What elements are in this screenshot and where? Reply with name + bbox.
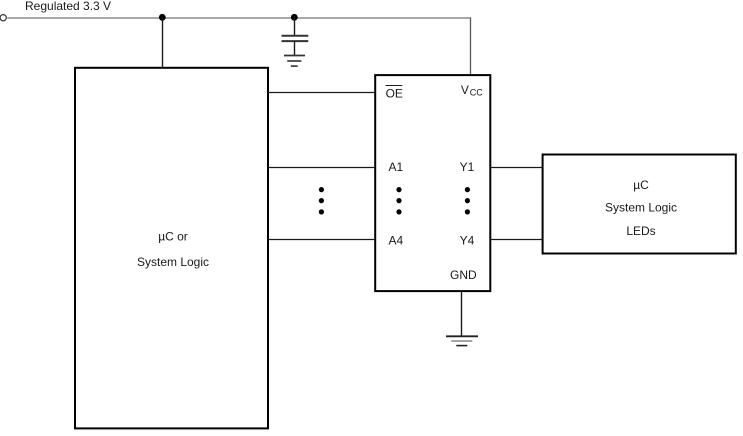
ellipsis dots (A inputs) (396, 187, 401, 214)
wire: rail down to capacitor (294, 18, 296, 36)
svg-text:µC: µC (633, 178, 649, 192)
wire: 3.3 V rail (7, 17, 470, 19)
wire: left block to OE (268, 92, 375, 94)
ellipsis dots (Y outputs) (465, 187, 470, 214)
wire: rail down to left block (162, 18, 164, 68)
svg-text:A4: A4 (389, 233, 404, 247)
svg-text:Y4: Y4 (460, 233, 475, 247)
wire: left block to A4 (268, 239, 375, 241)
IC U1 (quad buffer) (375, 75, 490, 291)
svg-text:LEDs: LEDs (626, 224, 655, 238)
svg-text:µC or: µC or (158, 230, 188, 244)
junction: rail to left block (159, 14, 166, 21)
junction: rail to capacitor (291, 14, 298, 21)
svg-text:A1: A1 (389, 160, 404, 174)
ground (below capacitor) (284, 56, 305, 67)
wire: Y4 to right block (490, 239, 542, 241)
wire: rail down to VCC pin (470, 18, 472, 76)
svg-text:GND: GND (450, 268, 477, 282)
ellipsis dots (wires between blocks) (319, 187, 324, 214)
wire: capacitor to ground (294, 41, 296, 55)
wire: GND pin to ground (461, 291, 463, 336)
svg-text:System Logic: System Logic (605, 201, 677, 215)
capacitor C1 (decoupling) (282, 36, 309, 41)
svg-text:OE: OE (386, 87, 403, 101)
svg-text:CC: CC (470, 87, 483, 97)
block: uC / System Logic / LEDs (543, 155, 736, 254)
svg-text:V: V (461, 83, 469, 97)
terminal: regulated 3.3 V input (0, 15, 6, 21)
svg-text:System Logic: System Logic (137, 255, 209, 269)
block: uC or System Logic (75, 68, 268, 429)
svg-text:Regulated 3.3 V: Regulated 3.3 V (25, 0, 111, 13)
ground (below IC) (446, 336, 478, 345)
wire: left block to A1 (268, 167, 375, 169)
svg-text:Y1: Y1 (460, 160, 475, 174)
wire: Y1 to right block (490, 167, 542, 169)
